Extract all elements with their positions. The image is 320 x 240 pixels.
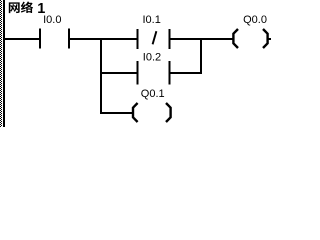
contact I0.0 left leg	[39, 29, 41, 49]
svg-text:I0.0: I0.0	[43, 14, 61, 26]
coil Q0.0 right paren	[263, 29, 268, 48]
coil Q0.0 right stub wire	[268, 38, 271, 40]
wire rail to I0.0	[5, 38, 39, 40]
left power rail	[3, 0, 5, 127]
coil Q0.1 left paren	[133, 103, 138, 122]
wire I0.0 to I0.1	[70, 38, 137, 40]
contact I0.2 left leg	[137, 61, 139, 85]
contact I0.1 NC slash	[153, 31, 157, 44]
svg-text:I0.1: I0.1	[143, 14, 161, 26]
wire branch to coil Q0.1	[102, 112, 133, 114]
node junction right rail (vertical)	[200, 38, 202, 74]
node junction branch rail (vertical)	[100, 38, 102, 114]
network title 网 glyph	[9, 2, 20, 13]
wire I0.1 to coil Q0.0	[171, 38, 233, 40]
coil Q0.0 left paren	[233, 29, 238, 48]
svg-text:I0.2: I0.2	[143, 51, 161, 63]
wire I0.2 to right rail	[171, 72, 201, 74]
svg-text:Q0.1: Q0.1	[141, 88, 165, 100]
contact I0.0 right leg	[68, 29, 70, 49]
contact I0.2 right leg	[169, 61, 171, 85]
network title 络 glyph	[21, 1, 33, 13]
wire branch to I0.2	[102, 72, 137, 74]
contact I0.1 right leg	[169, 29, 171, 49]
network selection dither bar	[0, 0, 2, 127]
svg-text:Q0.0: Q0.0	[243, 14, 267, 26]
coil Q0.1 right paren	[166, 103, 171, 122]
contact I0.1 left leg	[137, 29, 139, 49]
